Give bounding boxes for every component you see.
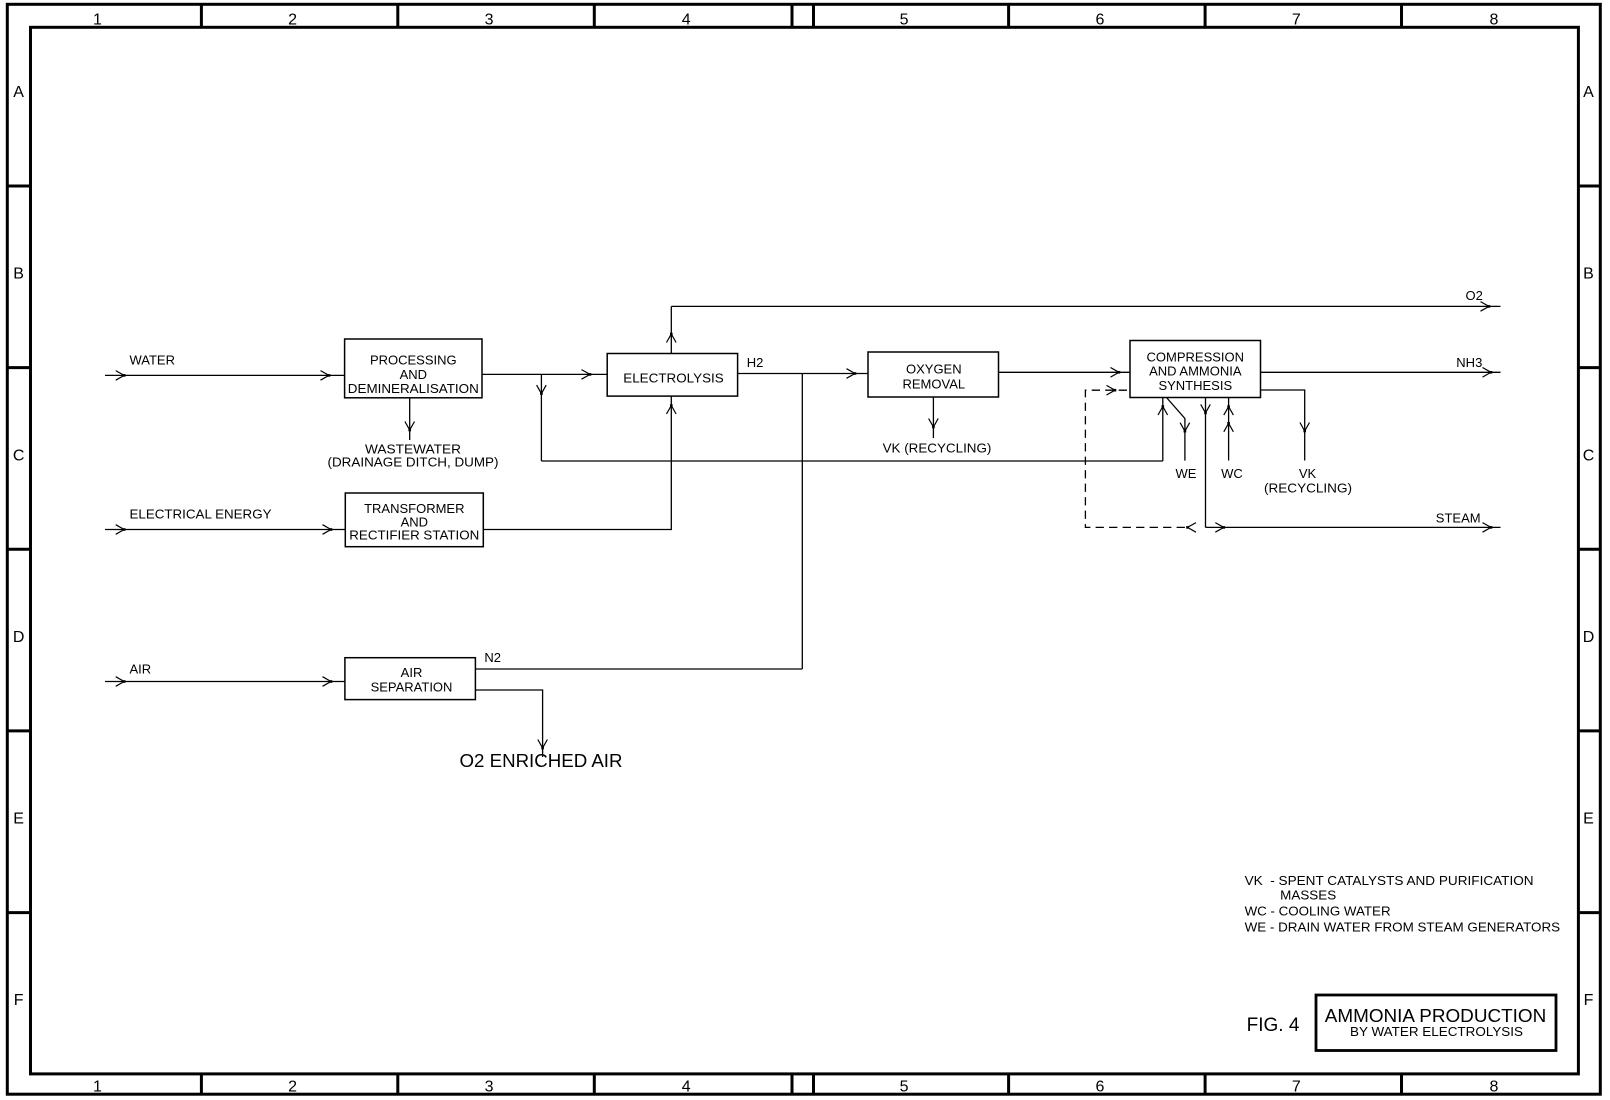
svg-text:2: 2 <box>288 1079 297 1096</box>
frame column ticks bottom <box>201 1074 1401 1094</box>
arrowhead: VK drop down <box>929 419 939 429</box>
svg-text:F: F <box>14 992 24 1009</box>
arrowhead: O2 output <box>1481 302 1491 312</box>
svg-text:7: 7 <box>1292 12 1301 29</box>
svg-text:VK (RECYCLING): VK (RECYCLING) <box>883 441 992 456</box>
block: processing and demineralisation <box>345 339 482 398</box>
arrowhead: into processing <box>321 371 331 381</box>
svg-text:B: B <box>13 266 24 283</box>
wire: water recycle riser into compression <box>1162 398 1164 462</box>
arrowhead: O2 enriched air down <box>538 740 548 750</box>
arrowhead: wastewater down <box>405 422 415 432</box>
svg-text:2: 2 <box>288 12 297 29</box>
wire: O2 enriched air branch <box>475 690 542 757</box>
svg-text:8: 8 <box>1489 1079 1498 1096</box>
wire: processing to electrolysis <box>482 373 607 375</box>
svg-text:4: 4 <box>682 1079 691 1096</box>
arrowhead: WC up outer <box>1224 405 1234 415</box>
arrowhead: into oxygen removal <box>847 369 857 379</box>
title block <box>1316 995 1556 1051</box>
wire: dashed recycle loop <box>1085 390 1185 527</box>
wire: N2 horizontal from air separation <box>475 668 802 670</box>
arrowhead: into compression left <box>1111 368 1121 378</box>
svg-text:OXYGEN: OXYGEN <box>906 362 962 377</box>
svg-text:N2: N2 <box>484 650 501 665</box>
svg-text:A: A <box>13 84 24 101</box>
wire: NH3 output line <box>1261 371 1501 373</box>
svg-text:WATER: WATER <box>130 353 176 368</box>
arrowhead: into transformer <box>323 525 333 535</box>
block: electrolysis <box>607 354 737 397</box>
frame row letters right <box>1583 84 1595 1009</box>
arrowhead: VK right down <box>1300 423 1310 433</box>
svg-text:VK - SPENT CATALYSTS AND PURI: VK - SPENT CATALYSTS AND PURIFICATION <box>1245 873 1534 888</box>
svg-text:5: 5 <box>900 1079 909 1096</box>
svg-text:F: F <box>1584 992 1594 1009</box>
wire: N2 riser <box>801 374 803 670</box>
wire: water recycle horizontal <box>541 460 1162 462</box>
svg-text:B: B <box>1583 266 1594 283</box>
frame column ticks top <box>201 4 1401 27</box>
svg-text:4: 4 <box>682 12 691 29</box>
arrowhead: STEAM output <box>1483 523 1493 533</box>
arrowhead: NH3 output <box>1483 368 1493 378</box>
frame row letters left <box>13 84 25 1009</box>
frame column numbers top <box>93 12 1499 29</box>
svg-text:VK: VK <box>1299 466 1317 481</box>
svg-text:SYNTHESIS: SYNTHESIS <box>1158 378 1232 393</box>
wire: water feed <box>105 374 345 376</box>
wire: H2 line electrolysis to oxygen removal <box>738 373 868 375</box>
svg-text:COMPRESSION: COMPRESSION <box>1147 349 1245 364</box>
arrowhead: dashed into compression <box>1107 385 1117 395</box>
svg-text:WE: WE <box>1176 466 1197 481</box>
wire: electrical energy feed <box>105 529 345 531</box>
svg-text:1: 1 <box>93 1079 102 1096</box>
svg-text:O2 ENRICHED AIR: O2 ENRICHED AIR <box>460 751 623 771</box>
wire: WE drain line <box>1167 398 1185 461</box>
svg-text:WC - COOLING WATER: WC - COOLING WATER <box>1245 904 1391 919</box>
svg-text:(RECYCLING): (RECYCLING) <box>1264 480 1352 495</box>
wire: WC cooling water line <box>1228 398 1230 461</box>
wire: water recycle branch down <box>540 374 542 461</box>
arrowhead: into electrolysis <box>582 370 592 380</box>
block: air separation <box>345 658 476 700</box>
svg-text:1: 1 <box>93 12 102 29</box>
arrowhead: water feed start <box>116 371 126 381</box>
block: compression and ammonia synthesis <box>1130 341 1261 398</box>
block: oxygen removal <box>868 352 999 397</box>
arrowhead: recycle branch down <box>537 385 547 395</box>
svg-text:6: 6 <box>1095 12 1104 29</box>
svg-text:(DRAINAGE DITCH, DUMP): (DRAINAGE DITCH, DUMP) <box>328 454 499 469</box>
svg-text:WC: WC <box>1221 466 1243 481</box>
wire: transformer to electrolysis <box>483 396 671 529</box>
wire: steam output line <box>1206 526 1501 528</box>
wire: oxygen riser from electrolysis <box>670 306 672 353</box>
svg-text:8: 8 <box>1489 12 1498 29</box>
wire: VK drop from oxygen removal <box>932 397 934 438</box>
svg-text:C: C <box>13 447 25 464</box>
svg-text:DEMINERALISATION: DEMINERALISATION <box>348 381 479 396</box>
arrowhead: WE down <box>1180 423 1190 433</box>
svg-text:MASSES: MASSES <box>1280 888 1336 903</box>
arrowhead: electrical energy start <box>116 525 126 535</box>
svg-text:A: A <box>1583 84 1594 101</box>
wire: air feed <box>105 681 345 683</box>
wire: O2 output line <box>671 305 1500 307</box>
arrowhead: oxygen riser up <box>667 333 677 343</box>
wire: oxygen removal to compression <box>999 371 1131 373</box>
svg-text:AIR: AIR <box>130 662 152 677</box>
arrowhead: into compression bottom <box>1158 405 1168 415</box>
svg-text:D: D <box>13 629 25 646</box>
svg-text:RECTIFIER STATION: RECTIFIER STATION <box>349 528 479 543</box>
arrowhead: into air separation <box>323 677 333 687</box>
svg-text:PROCESSING: PROCESSING <box>370 353 457 368</box>
arrowhead: steam back left <box>1186 523 1196 533</box>
svg-text:NH3: NH3 <box>1456 355 1482 370</box>
svg-text:D: D <box>1583 629 1595 646</box>
svg-text:AIR: AIR <box>401 665 423 680</box>
svg-text:ELECTROLYSIS: ELECTROLYSIS <box>623 371 724 386</box>
svg-text:FIG. 4: FIG. 4 <box>1247 1015 1300 1036</box>
wire: steam drop from compression <box>1205 398 1207 528</box>
svg-text:ELECTRICAL ENERGY: ELECTRICAL ENERGY <box>130 507 272 522</box>
frame row ticks left <box>7 186 30 913</box>
arrowhead: WC up inner <box>1224 422 1234 432</box>
svg-text:6: 6 <box>1095 1079 1104 1096</box>
wire: VK recycling line right <box>1261 390 1305 461</box>
arrowhead: steam forward right <box>1215 523 1225 533</box>
svg-text:7: 7 <box>1292 1079 1301 1096</box>
svg-text:BY WATER ELECTROLYSIS: BY WATER ELECTROLYSIS <box>1350 1024 1523 1039</box>
svg-text:AND: AND <box>400 367 427 382</box>
svg-text:O2: O2 <box>1466 288 1483 303</box>
svg-text:E: E <box>1583 811 1594 828</box>
svg-text:H2: H2 <box>747 355 764 370</box>
svg-text:E: E <box>13 811 24 828</box>
svg-text:REMOVAL: REMOVAL <box>902 376 965 391</box>
svg-text:5: 5 <box>900 12 909 29</box>
svg-text:STEAM: STEAM <box>1436 511 1481 526</box>
frame row ticks right <box>1578 186 1600 913</box>
svg-text:3: 3 <box>485 12 494 29</box>
arrowhead: into electrolysis bottom <box>667 404 677 414</box>
wire: wastewater drop <box>409 398 411 440</box>
svg-text:3: 3 <box>485 1079 494 1096</box>
svg-text:WE - DRAIN WATER FROM STEAM GE: WE - DRAIN WATER FROM STEAM GENERATORS <box>1245 920 1561 935</box>
arrowhead: air feed start <box>116 677 126 687</box>
arrowhead: steam drop down <box>1201 404 1211 414</box>
frame column numbers bottom <box>93 1079 1499 1096</box>
svg-text:AMMONIA PRODUCTION: AMMONIA PRODUCTION <box>1325 1006 1547 1026</box>
svg-text:SEPARATION: SEPARATION <box>371 680 453 695</box>
svg-text:C: C <box>1583 447 1595 464</box>
svg-text:AND AMMONIA: AND AMMONIA <box>1149 364 1242 379</box>
block: transformer and rectifier station <box>345 493 483 547</box>
